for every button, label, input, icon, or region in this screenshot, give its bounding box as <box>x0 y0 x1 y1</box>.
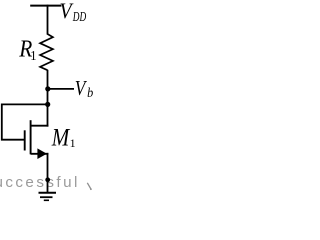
wire gate feedback (drain to gate) <box>2 104 48 139</box>
node gate feedback junction dot <box>45 102 50 107</box>
resistor R1 <box>40 34 53 70</box>
transistor M1 source arrow <box>37 148 47 159</box>
transistor M1 source lead <box>31 153 49 155</box>
svg-text:1: 1 <box>30 48 36 62</box>
wire Vb stub <box>48 88 74 90</box>
transistor M1 drain lead <box>31 125 49 127</box>
junction dot above ground <box>45 177 50 182</box>
label M1 <box>51 123 76 151</box>
svg-text:1: 1 <box>70 136 76 150</box>
label VDD <box>60 0 87 25</box>
label R1 <box>18 35 36 62</box>
transistor M1 channel bar <box>30 120 32 154</box>
ground bar 1 <box>39 192 57 194</box>
svg-text:M: M <box>51 123 71 151</box>
ground bar 2 <box>40 196 53 198</box>
wire resistor to drain <box>47 70 49 127</box>
wire rail to resistor <box>47 5 49 35</box>
node Vb junction dot <box>45 86 50 91</box>
watermark diagonal stroke <box>87 183 92 190</box>
label Vb <box>75 77 94 100</box>
svg-text:successful: successful <box>0 174 80 191</box>
wire source to ground <box>47 153 49 193</box>
ground bar 3 <box>44 199 49 201</box>
svg-text:DD: DD <box>72 10 87 25</box>
VDD supply rail <box>30 5 61 7</box>
svg-text:V: V <box>75 77 87 100</box>
svg-text:b: b <box>87 85 94 101</box>
transistor M1 gate bar <box>24 130 26 150</box>
svg-text:V: V <box>60 0 74 23</box>
